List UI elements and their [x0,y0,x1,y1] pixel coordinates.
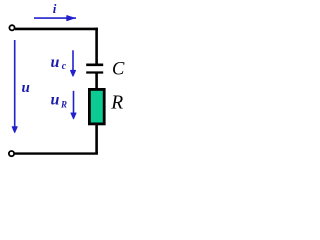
svg-text:R: R [110,92,123,113]
svg-text:u: u [22,80,30,96]
svg-text:u: u [51,54,60,71]
svg-text:u: u [51,92,60,109]
svg-text:i: i [53,1,57,16]
svg-text:c: c [62,61,67,72]
svg-text:C: C [112,60,125,80]
svg-text:R: R [60,100,67,110]
